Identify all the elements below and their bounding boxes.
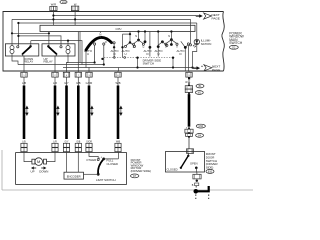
top connector pin 2	[71, 6, 78, 11]
tiny contact letters	[92, 42, 179, 49]
connector pin 3 on main switch box	[86, 71, 93, 85]
ground dashes below	[195, 195, 197, 200]
svg-text:D: D	[179, 52, 181, 56]
in-line connector pair on wire G/B	[75, 143, 81, 151]
svg-text:SWITCH: SWITCH	[143, 62, 154, 66]
in-line connector pair on wire G/OR	[86, 143, 92, 151]
wire W/B (thick harness wire)	[116, 77, 122, 143]
svg-text:U: U	[87, 52, 89, 56]
right chain pin below main box	[185, 77, 206, 149]
wire C	[12, 18, 191, 20]
down relay coil	[10, 46, 14, 54]
dashed link start dot	[101, 58, 103, 60]
thick wires	[21, 77, 122, 152]
door switch open contact	[195, 167, 198, 170]
cluster sw1 throws	[134, 40, 143, 43]
LED bottom wire	[193, 45, 197, 68]
arc contacts	[94, 43, 105, 65]
next page arrow top	[196, 13, 220, 21]
junction dots at connector pair	[188, 84, 190, 86]
svg-text:D: D	[146, 52, 148, 56]
junction dots top-left	[11, 14, 76, 41]
up relay contact	[60, 46, 62, 48]
down relay arm	[23, 47, 31, 54]
ground splice dot	[194, 189, 199, 194]
svg-text:N: N	[168, 35, 170, 38]
wire cpu feed 2	[74, 19, 76, 25]
svg-text:OTHER: OTHER	[86, 158, 96, 162]
motor ref oval	[131, 174, 139, 178]
main switch box wavy right edge	[222, 12, 224, 72]
wire down-relay arm stub	[30, 41, 32, 46]
wire L3	[31, 41, 82, 65]
wire cpu drop x78.3	[77, 32, 79, 72]
door switch box	[166, 152, 205, 173]
wire up-relay coil stub	[67, 41, 69, 46]
up relay coil	[66, 46, 70, 54]
wire pin3 to OTHER contact	[89, 152, 98, 159]
svg-text:ENCODER: ENCODER	[67, 174, 81, 178]
motor wires	[24, 152, 55, 162]
illumination LED	[193, 39, 200, 47]
limit switch	[84, 152, 119, 176]
wire up-relay arm to pin2	[55, 54, 57, 71]
main switch ref oval	[229, 45, 238, 49]
connector pin 4 on main switch box	[63, 71, 69, 85]
svg-text:M: M	[37, 159, 40, 164]
connector ref oval M1	[195, 91, 203, 95]
wire vertical x12	[11, 19, 13, 45]
connector pin 9 on main switch box	[186, 71, 192, 85]
wire arc left stub	[85, 50, 87, 68]
motor	[32, 158, 47, 166]
wire bus y64.5	[18, 64, 104, 66]
door switch arm	[188, 153, 190, 155]
svg-text:W/R: W/R	[51, 3, 56, 7]
next page arrow bottom	[193, 65, 221, 72]
motor arrows	[32, 167, 36, 169]
wire L/R (thick harness wire)	[53, 77, 59, 143]
page frame bottom	[2, 189, 253, 191]
CPU box	[40, 25, 195, 31]
svg-text:SWITCH: SWITCH	[229, 41, 243, 45]
wire cpu feed 1	[52, 16, 54, 26]
ground chain dotted	[195, 186, 197, 189]
right cluster	[181, 19, 191, 71]
in-line connector pair on wire W/B	[115, 143, 121, 151]
connector ref oval B4	[196, 134, 204, 138]
svg-text:M10: M10	[199, 126, 204, 128]
connector pin 7 on main switch box	[75, 71, 81, 85]
svg-text:U: U	[124, 52, 126, 56]
dashed mechanical link	[104, 57, 175, 59]
up relay arm	[49, 47, 57, 54]
svg-text:LIMIT SWITCH: LIMIT SWITCH	[96, 178, 116, 182]
connector pin 1 on main switch box	[21, 71, 27, 85]
arc pole feed	[99, 32, 101, 38]
wire pin3 stub	[88, 68, 90, 72]
in-line connector pair on wire L/B	[21, 143, 27, 151]
wire G/Y (thick harness wire)	[65, 77, 69, 143]
down relay box	[5, 44, 38, 56]
up relay box	[42, 44, 75, 56]
svg-text:D: D	[113, 52, 115, 56]
motor text block	[131, 158, 151, 173]
in-line connector pair on wire L/R	[52, 143, 58, 151]
svg-text:SIDE): SIDE)	[206, 166, 214, 170]
cluster sw1 pole	[138, 32, 140, 41]
svg-text:RELAY: RELAY	[24, 60, 33, 64]
junction dot below door pin	[196, 180, 198, 182]
encoder box	[64, 172, 84, 179]
svg-text:N: N	[135, 35, 137, 38]
door switch ref oval	[206, 169, 214, 173]
switch clusters	[133, 30, 179, 56]
wire D	[18, 22, 196, 24]
svg-text:RELAY: RELAY	[44, 60, 53, 64]
wire G/OR (thick harness wire)	[86, 77, 93, 143]
cluster sw3 pivot	[161, 40, 164, 43]
svg-text:UP: UP	[30, 169, 34, 173]
svg-text:(DRIVER SIDE): (DRIVER SIDE)	[131, 169, 151, 173]
cluster sw4 stub	[170, 40, 172, 45]
svg-text:N: N	[99, 33, 101, 37]
cluster feed v3	[149, 32, 151, 57]
connector ref oval B1	[196, 84, 204, 88]
wire bus y62.5	[67, 62, 95, 64]
wire cpu drop x80	[79, 32, 81, 63]
wire L1	[12, 33, 49, 46]
cluster sw2 pole	[144, 32, 146, 42]
link verticals	[138, 58, 174, 68]
main switch box outline	[3, 12, 224, 72]
down relay contact	[17, 46, 19, 48]
bus dots	[94, 61, 194, 68]
connector pin 2 on main switch box	[52, 71, 58, 85]
wire bus y67.5	[63, 67, 193, 69]
door switch text block	[206, 152, 218, 170]
page frame left	[1, 150, 3, 190]
driver switch arc	[86, 37, 112, 50]
door switch bottom pin	[193, 174, 201, 179]
svg-text:NATION: NATION	[201, 42, 212, 46]
cluster feed v5	[157, 32, 159, 57]
in-line connector pair (main switch to door harness)	[185, 86, 192, 89]
in-line connector pair (door harness)	[185, 129, 193, 133]
wire L2	[18, 36, 61, 46]
connector pin 6 on main switch box	[115, 71, 121, 85]
LED feed wire	[196, 23, 198, 39]
in-line connector pair on wire G/Y	[63, 143, 69, 151]
svg-text:CLOSED: CLOSED	[167, 167, 178, 171]
svg-text:DOWN: DOWN	[39, 169, 48, 173]
wire stub conn1	[52, 11, 54, 16]
wire down-relay arm to pin1	[23, 54, 25, 71]
cluster sw4 throws	[166, 40, 176, 44]
wire B	[53, 15, 196, 17]
svg-text:B10: B10	[208, 171, 213, 174]
motor box	[16, 153, 127, 185]
connector ref oval M33	[60, 0, 67, 4]
wire stub conn2	[74, 11, 76, 20]
svg-text:PAGE: PAGE	[212, 68, 220, 72]
junction dots in connector pair	[188, 127, 190, 129]
wire G/B (thick harness wire)	[76, 77, 80, 143]
relay wires to pins	[12, 32, 193, 72]
connector ref oval M10	[196, 124, 205, 128]
cluster sw4 pole	[170, 32, 172, 40]
wire W (thick) to door switch	[188, 94, 191, 127]
top connector pin 1	[50, 6, 57, 10]
arc end dot	[110, 42, 113, 45]
svg-text:U: U	[157, 52, 159, 56]
power window main switch label	[229, 31, 244, 45]
ground thick L	[196, 186, 209, 191]
pre-cluster wires	[114, 32, 134, 58]
svg-text:CLOSED: CLOSED	[107, 162, 119, 166]
connector junction blob below pin 9	[188, 77, 190, 79]
wire to door switch pin	[188, 136, 190, 148]
svg-text:CPU: CPU	[116, 27, 122, 31]
small in-line connector on ground wire	[195, 183, 199, 186]
switch labels row	[84, 49, 185, 56]
wire L/B (thick harness wire)	[22, 77, 28, 143]
svg-text:PAGE: PAGE	[212, 16, 220, 20]
wire down coil return	[12, 53, 18, 64]
svg-text:OPEN: OPEN	[190, 162, 198, 166]
wire vertical x18.4	[17, 23, 19, 46]
wire pin6 stub	[117, 68, 119, 72]
wire up coil return	[67, 53, 69, 71]
encoder feeds	[67, 152, 79, 173]
bottom pin row	[21, 71, 192, 85]
door switch top pin	[187, 149, 194, 154]
